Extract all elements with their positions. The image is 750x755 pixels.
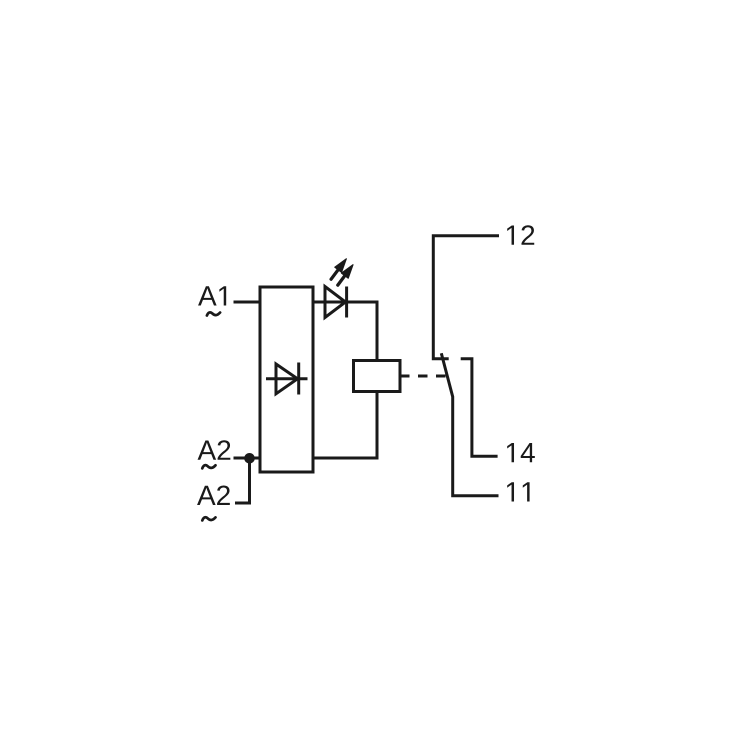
contact lever and wire to terminal 11	[441, 353, 498, 495]
AC symbol under upper A2	[202, 465, 215, 468]
terminal label 14	[507, 443, 535, 462]
LED D1: cathode bar	[345, 287, 348, 318]
diode inside rectifier: triangle	[276, 364, 298, 394]
rectifier block	[260, 287, 313, 472]
terminal label 12	[507, 225, 534, 245]
wire A2 to rectifier	[234, 457, 261, 460]
AC symbol under A1	[207, 312, 220, 315]
LED D1: triangle	[325, 287, 346, 318]
wire lower A2 up to junction	[235, 458, 250, 503]
junction node on A2 wire	[244, 453, 255, 464]
dashed actuation link coil to contact	[400, 375, 446, 378]
terminal label A2 (upper)	[198, 440, 231, 460]
diode inside rectifier: horizontal lead	[266, 377, 308, 380]
diode inside rectifier: cathode bar	[297, 363, 300, 395]
terminal label A1	[198, 286, 226, 305]
LED emission arrow 1	[331, 259, 346, 279]
relay coil K1	[354, 361, 401, 392]
LED emission arrow 2	[338, 265, 353, 285]
AC symbol under lower A2	[202, 517, 215, 520]
wire and fixed contact 12	[433, 236, 499, 359]
wire A1 to rectifier	[234, 301, 261, 304]
terminal label 11	[507, 482, 529, 501]
fixed contact 14 and wire	[461, 359, 498, 457]
wire rectifier to LED to corner	[313, 302, 377, 361]
wire coil bottom to rectifier	[313, 392, 377, 459]
terminal label A2 (lower)	[197, 485, 230, 505]
